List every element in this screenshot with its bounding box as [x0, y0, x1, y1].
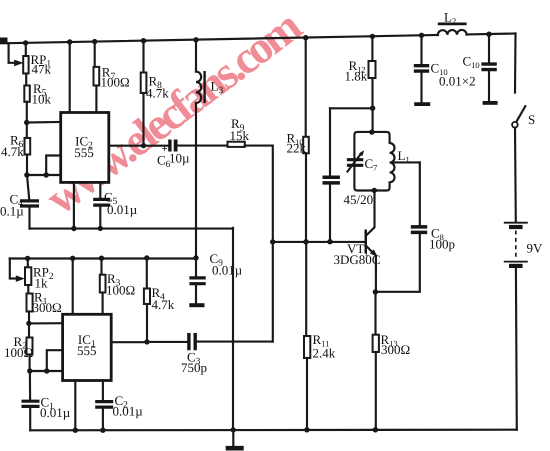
wire tie horizontal [30, 370, 47, 372]
wire R11 to bottom rail [306, 358, 308, 430]
ground bar C10b [483, 101, 498, 105]
tank circuit box with L1 coil right edge [354, 132, 394, 191]
node R2/ties [27, 368, 32, 373]
wire switch to battery [514, 128, 517, 222]
ground symbol stem [232, 430, 234, 447]
wire C9 to ground stub [195, 286, 197, 304]
wire rail to L3 [195, 40, 197, 72]
wire C3 right to riser [197, 341, 273, 343]
wire rail to R7 [94, 42, 96, 67]
capacitor padder [323, 177, 340, 183]
capacitor C6 electrolytic [168, 140, 171, 152]
wire rail to R8 [142, 41, 144, 73]
wire emitter down [375, 256, 377, 292]
svg-text:S: S [528, 112, 535, 127]
resistor R12 [369, 61, 376, 78]
node rail3 / IC1 pin4 wire [70, 256, 75, 261]
wire rail to IC2 pin4 [67, 39, 72, 44]
wire R6 down [26, 155, 28, 176]
wire R12 node to tank [372, 108, 374, 132]
svg-text:100Ω: 100Ω [101, 75, 130, 90]
potentiometer RP2 [25, 267, 31, 285]
wire C10b to ground [488, 71, 490, 101]
wire tie loop to IC1 pin6 [47, 350, 63, 371]
wire IC1 pin5 down [102, 381, 104, 401]
wire node down to R11 [305, 242, 307, 336]
node pin1/bottom rail [73, 428, 78, 433]
op-amp/timer IC2 555 box [61, 113, 109, 183]
wire node to R2 [28, 323, 30, 337]
node tank bottom [372, 188, 377, 193]
potentiometer RP2 loop wire [10, 259, 17, 279]
node R12 / padder branch [370, 106, 375, 111]
svg-text:45/20: 45/20 [344, 192, 374, 207]
node base tap [270, 239, 275, 244]
timer IC1 555 box [63, 314, 112, 380]
battery cell2 short plate [509, 264, 523, 268]
svg-text:4.7k: 4.7k [152, 297, 175, 312]
capacitor C3 [189, 333, 195, 350]
wire IC2 pin5 down [99, 182, 101, 198]
wire rail to C10b [488, 34, 490, 62]
capacitor C10b [481, 64, 496, 70]
wire tap down to C8 [419, 162, 421, 225]
svg-text:0.01µ: 0.01µ [107, 202, 138, 217]
wire node to C9 [195, 258, 197, 276]
wire RP1 to R5 [25, 74, 27, 86]
svg-text:300Ω: 300Ω [33, 300, 62, 315]
resistor R9 [228, 142, 245, 147]
wire rail3 to R3 [100, 258, 102, 275]
wire rail3 to R4 [146, 258, 148, 289]
wire tie to IC2 pin2 [46, 174, 61, 176]
node rail/R12 [370, 34, 375, 39]
svg-text:100Ω: 100Ω [106, 283, 135, 298]
wire C1 to bottom rail [29, 408, 31, 430]
wire base node to VT1 [273, 241, 365, 243]
potentiometer RP1 [23, 56, 28, 74]
node pin1/ground rail [71, 226, 76, 231]
bottom rail [30, 429, 517, 432]
node tie IC1 [44, 368, 49, 373]
node: R6 / pins 2-6 [24, 172, 29, 177]
node padder/base wire [327, 239, 332, 244]
watermark [36, 0, 310, 224]
wire rail right corner down to switch [514, 34, 517, 93]
battery cell1 long plate [504, 222, 528, 224]
wire rail to R10 [305, 38, 307, 137]
node rail/C10a [419, 33, 424, 38]
wire padder vertical top [329, 108, 331, 175]
capacitor C9 [189, 278, 205, 284]
resistor R1 [27, 294, 33, 312]
potentiometer RP1 loop wire [9, 43, 16, 63]
svg-text:2.4k: 2.4k [313, 346, 336, 361]
node rail3/R3 [99, 256, 104, 261]
switch S contact circle [512, 122, 518, 128]
node R8 bottom [141, 143, 146, 148]
svg-text:0.1µ: 0.1µ [0, 204, 24, 219]
ground bar C10a [414, 102, 430, 106]
resistor R6 [25, 138, 31, 155]
wire node to C4 [27, 175, 29, 199]
svg-text:1k: 1k [35, 276, 49, 291]
wire pins 2-6 tie horizontal [27, 174, 46, 176]
node tank top [369, 129, 374, 134]
ground symbol bar [226, 446, 244, 451]
ground rail of IC2 section [30, 228, 234, 230]
svg-text:0.01µ: 0.01µ [113, 404, 144, 419]
resistor R10 [303, 137, 309, 154]
svg-text:750p: 750p [181, 360, 207, 375]
svg-text:47k: 47k [32, 62, 52, 77]
C7 trimmer arrow [348, 153, 362, 172]
node L3/rail3/C9 [193, 255, 198, 260]
top supply rail (right part after L2) [467, 32, 516, 35]
resistor R7 [94, 67, 100, 86]
top supply rail (left part) [8, 35, 438, 43]
transistor VT1 collector wire [367, 191, 375, 235]
svg-text:0.01µ: 0.01µ [212, 263, 243, 278]
capacitor C1 [22, 401, 40, 406]
wire L1 tap to C8 [391, 161, 420, 163]
node emitter junction [373, 289, 378, 294]
inductor L2 [438, 30, 467, 35]
battery cell2 long plate [504, 261, 528, 263]
L2 core bar [438, 22, 467, 25]
wire C6 to R9 [178, 145, 228, 147]
wire node left to padder [330, 107, 373, 109]
wire R4 down to pin3 wire [146, 304, 148, 342]
L3 core bar [203, 71, 205, 103]
wire R12 down [371, 78, 373, 108]
svg-text:L2: L2 [444, 10, 456, 27]
wire rail to C10a [420, 35, 422, 64]
resistor R11 [304, 336, 310, 358]
VT1 emitter arrowhead [370, 249, 378, 257]
resistor R3 [100, 275, 106, 293]
wire to IC2 pin 7 [27, 121, 61, 124]
wire IC1 pin1 down [74, 381, 76, 431]
svg-text:0.01×2: 0.01×2 [439, 74, 476, 89]
node C2/bottom rail [100, 428, 105, 433]
battery cell1 short plate [509, 225, 523, 229]
wire IC2 pin3 output [109, 145, 169, 147]
node rail3/R4 [144, 255, 149, 260]
wire tie loop to IC2 pin6 [46, 156, 61, 176]
wire rail to RP1 [25, 43, 27, 56]
resistor R13 [373, 335, 379, 352]
svg-text:10µ: 10µ [169, 151, 190, 166]
svg-text:555: 555 [77, 343, 97, 358]
ground bar C9 [189, 303, 204, 307]
node R1/R2/pin7 [26, 321, 31, 326]
capacitor C8 [411, 227, 427, 233]
node rail/R10 [303, 35, 308, 40]
node tie [44, 172, 49, 177]
wire rail3 to RP2 [27, 258, 29, 267]
wire C10a to ground [420, 73, 422, 103]
svg-text:300Ω: 300Ω [381, 342, 410, 357]
wire R1 down [28, 312, 30, 324]
node rail/R7 [92, 39, 97, 44]
resistor R8 [141, 73, 147, 94]
wire R10 down to base node [305, 153, 307, 242]
resistor R4 [144, 289, 150, 305]
node rail/R8 [141, 38, 146, 43]
wire rail3 to IC1 top [72, 258, 74, 314]
svg-text:4.7k: 4.7k [146, 86, 169, 101]
svg-text:3DG80C: 3DG80C [334, 252, 381, 267]
capacitor C5 [93, 199, 110, 205]
node R10/R11/base wire [303, 239, 308, 244]
wire R7 to IC2 [95, 86, 97, 113]
wire emitter node to R13 [374, 292, 376, 335]
resistor R2 [27, 338, 33, 355]
wire C5 down [99, 207, 101, 229]
node rail3/RP2 [25, 256, 30, 261]
wire pin3 to C3 [147, 341, 187, 343]
capacitor C7 trimmer plates [347, 160, 363, 166]
wire R13 to bottom rail [375, 352, 377, 430]
wire node to R6 [26, 123, 28, 139]
svg-text:C10: C10 [463, 54, 480, 71]
wire L3 down to IC1 rail [195, 103, 197, 258]
svg-text:555: 555 [74, 145, 94, 160]
wire R3 to IC1 [102, 293, 104, 315]
wire node to C1 [29, 371, 31, 400]
svg-text:9V: 9V [527, 241, 544, 256]
node R4/pin3 [144, 339, 149, 344]
wire battery to bottom rail [515, 268, 518, 430]
node R13/bottom rail [373, 427, 378, 432]
wire RP2 to R1 [27, 285, 29, 294]
battery dashed middle [515, 231, 517, 260]
wire R8 down to pin3 wire [142, 93, 144, 146]
resistor R5 [24, 86, 30, 102]
svg-text:10k: 10k [32, 92, 52, 107]
svg-text:100p: 100p [429, 237, 455, 252]
node C5/ground rail [98, 226, 103, 231]
wire to IC1 pin7 [29, 322, 63, 324]
capacitor C2 [95, 402, 113, 408]
wire IC1 pin3 output [111, 341, 147, 343]
wire tie to IC1 pin2 [47, 370, 63, 372]
RP2 wiper arrow [16, 275, 25, 282]
svg-text:4.7k: 4.7k [1, 144, 24, 159]
switch S blade [516, 106, 525, 122]
wire R9 right and down [245, 146, 273, 342]
node R11/bottom rail [304, 427, 309, 432]
svg-text:22k: 22k [287, 141, 307, 156]
wire rail to R12 [371, 36, 373, 61]
svg-text:15k: 15k [230, 128, 250, 143]
svg-text:C7: C7 [365, 156, 378, 173]
wire IC2 pin1 down [73, 182, 75, 228]
VT1 emitter wire [367, 247, 375, 255]
svg-text:1.8k: 1.8k [345, 69, 368, 84]
wire ground rail down [232, 228, 234, 430]
wire C2 down [102, 409, 104, 431]
RP1 wiper arrow [14, 60, 23, 67]
node ground/bottom rail [231, 427, 236, 432]
VT1 base bar [365, 230, 368, 254]
wire C4 to ground rail [28, 208, 30, 229]
node: R5/R6/pin7 [24, 120, 29, 125]
capacitor C4 [20, 201, 39, 206]
node: rail / RP1 [23, 40, 28, 45]
wire padder vertical bottom [329, 185, 331, 242]
capacitor C10a [414, 66, 429, 71]
supply rail IC1 section [10, 257, 196, 259]
node rail/C10b [486, 32, 491, 37]
wire R5 down [26, 102, 28, 123]
svg-text:0.01µ: 0.01µ [40, 405, 71, 420]
corner blob top-left [0, 38, 8, 45]
wire C8 down and left to emitter node [376, 234, 420, 292]
inductor L3 [196, 72, 201, 103]
node rail/L3 [193, 37, 198, 42]
wire R2 down [29, 355, 31, 372]
